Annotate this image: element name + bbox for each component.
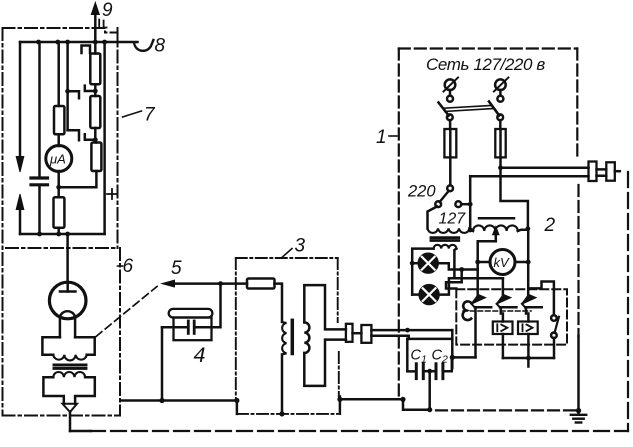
enclosure box 3 right edge upper [337,258,339,322]
wire kV meter right lead [515,261,529,264]
svg-text:kV: kV [494,255,511,270]
wire filament winding right down [454,249,456,279]
contact K3 tail [522,304,525,307]
stub below C divider node [451,357,454,368]
earth symbol bar 3 [576,421,581,423]
junction dot bottom bus x58.7 [56,232,61,237]
voltage selector contact 220 [447,185,453,191]
transformer T2 primary winding [282,322,287,355]
voltage selector contact tap220 [435,201,441,207]
signal lamp L1 [419,254,438,273]
junction dot lamp bus left [410,261,415,266]
resistor R2 of divider chain [90,96,100,128]
wire HV winding right [518,230,528,231]
earth symbol bar 1 [571,414,586,416]
contact K1 drop wire [476,262,479,297]
junction dot riser at HV winding [468,228,473,233]
filament winding [434,245,457,249]
door switch blade [555,317,559,333]
enclosure box 7/6 dash-dot left edge [2,28,4,416]
junction dot bus at capacitor 4 branch [159,398,164,403]
relay coil P1 box [493,322,513,335]
enclosure box 1 left edge [398,49,400,399]
svg-text:Сеть 127/220 в: Сеть 127/220 в [426,55,545,74]
wire microammeter branch top [57,42,60,106]
mains plug pin right [495,79,506,90]
wire lamp L2 left [412,293,419,296]
wire border riser through bus to bottom [339,397,342,414]
svg-text:4: 4 [194,343,206,367]
contact K3 arrowhead [522,295,536,304]
wire step stub from L1 node [446,270,462,289]
mains plug pin left link [449,90,452,96]
resistor R1 of divider chain [90,54,100,85]
contact K3 bar [525,306,542,309]
capacitor 4 right lead [196,284,221,328]
tap arrowhead [493,227,499,235]
wire lamp L2 right step [439,278,503,294]
mechanical link of contacts dashed [463,310,531,312]
remote cable connector half A [589,162,597,182]
svg-text:220: 220 [407,183,436,201]
resistor above microammeter [54,106,64,134]
svg-text:7: 7 [144,105,156,126]
wire C divider node to relay [452,356,475,359]
transformer core bar top [431,236,459,239]
earth symbol stem [577,411,580,415]
capacitor C1 plate left [415,364,418,379]
junction dot lamp L1 net [459,267,464,272]
contact K3 drop wire [527,262,530,297]
wire R1 to junction [94,84,97,91]
enclosure box 6 bottom edge [3,415,121,417]
wire R3 down to meter net [59,171,97,187]
main switch contact left [447,114,453,120]
voltage selector blade [440,191,449,202]
enclosure box 3 bottom edge [237,413,338,415]
mains plug pin left slash [444,78,459,92]
wire left branch with current arrows upper segment [19,42,22,157]
junction dot on riser at tap127 [468,202,473,207]
svg-text:3: 3 [295,236,306,257]
stub below relay rail dot [527,358,530,367]
main switch contact right [497,114,503,120]
tube cathode arc [60,311,75,316]
junction dot on lead 5 [218,281,223,286]
resistor below microammeter [54,197,65,228]
junction dot C divider node [450,355,455,360]
wire resistor to transformer primary [275,284,283,322]
bottom bus of box 7 [20,233,105,236]
transformer T2 secondary winding [304,322,309,353]
mains plug pin right slash [494,78,509,92]
signal lamp L2 cross [423,288,436,301]
outer dashed border bottom edge [90,430,628,432]
wire junction to resistor R2 [94,91,97,96]
arrowhead down on left branch [16,157,24,173]
filament transformer core bar top [54,364,86,367]
dashed leader from tube to arrow 5 [96,287,157,337]
arrowhead 9 [91,3,99,15]
remote cable connector stub [615,170,620,173]
wire T2 primary to bottom border [281,355,284,414]
outer dashed border right edge [627,172,629,431]
junction dot bottom bus x67.6 [65,232,70,237]
wire right branch x104.6 [103,42,106,234]
capacitor plate top [31,176,48,179]
capacitor plate bottom [31,183,48,186]
contact K1 tail [471,304,474,307]
wire fuse F2 to cable node [499,157,502,167]
cable wire lower to box 1 [371,336,408,339]
wire left branch lower segment [19,208,22,234]
wire capacitor branch upper [38,42,41,177]
wire T2 secondary top to connector [304,285,346,329]
junction dot bus at box edge [400,397,405,402]
resistor in box 3 [247,279,275,289]
enclosure box 3 right edge lower [338,352,340,397]
junction dot bus x104.6 [102,40,107,45]
microammeter circle [46,146,72,172]
wire bottom bus corner into box 1 [403,399,430,409]
signal lamp L2 [419,285,438,304]
earth symbol bar 2 [573,418,583,420]
wire start of bottom dashed run [70,430,91,433]
transformer T2 core [291,320,295,353]
wire between connector halves [353,332,362,335]
wire T2 secondary bottom loop to connector [304,340,346,386]
filament transformer primary winding [53,355,86,361]
capacitor C2 plate right [441,364,444,379]
enclosure box 3 left edge [235,258,237,400]
wire bus to tube anode [66,234,69,282]
wire fuse F1 to selector [449,157,452,185]
filament transformer secondary outline [43,377,94,404]
enclosure box 1 right edge lower [577,185,579,336]
kenotron tube envelope [49,282,86,319]
junction dot at earth [576,408,581,413]
door switch contact bottom [551,333,557,339]
junction dot bottom bus x39.5 [37,232,42,237]
junction dot kV left [475,260,480,265]
contact K2 lower lead [501,307,503,321]
enclosure box 6 right edge [119,248,121,415]
junction dot below fuse F2 [498,165,503,170]
junction dot under microammeter [56,185,61,190]
bus corner down to box 3 border [236,401,239,414]
svg-text:5: 5 [171,258,182,279]
capacitor unit 4 lid [169,309,213,318]
arrow 9 output lead [94,13,97,42]
svg-text:9: 9 [102,0,113,21]
contact K1 bar [475,306,492,309]
main switch blade left [439,103,449,116]
electrode hook symbol 8 [134,40,153,51]
junction dot T2 primary at border [279,411,284,416]
fuse F2 element [499,129,502,157]
wire R2 junction hook [85,134,96,139]
filament transformer primary outline [42,337,94,355]
relay coil P1 symbol [497,324,507,331]
wire filament winding left to lamps [412,249,433,295]
relay coil symbol epsilon [463,301,472,320]
wire resistor to microammeter [57,134,60,146]
wire top bus of divider box 7 [20,41,138,44]
wire lamp L1 left [412,262,418,265]
wire C divider bypass top [407,338,452,341]
wire cable upper to C node riser [451,330,454,357]
junction dot bus x38 [36,40,41,45]
wire R2 to junction [94,128,97,140]
junction dot on bottom border [427,407,432,412]
capacitor 4 plate right [193,321,196,333]
HV transformer core bar [479,217,514,220]
wire coil P1 to bottom rail [502,334,505,358]
wire tap127 to right riser [461,203,470,206]
wire junction to lower resistor [57,187,60,197]
wire winding right end [468,227,471,230]
door switch contact top [551,315,557,321]
output arrow symbol of HV unit [63,404,78,412]
mains plug pin left [445,79,456,90]
leader line for 6 [118,265,123,267]
mains plug pin right link [499,90,502,96]
junction dot bus x57.8 [55,40,60,45]
fuse F1 body [444,129,456,157]
plus mark near border [107,189,117,199]
relay unit dashed box [456,289,567,344]
wire capacitor branch lower [38,186,41,234]
main bottom bus left section [121,399,237,402]
svg-text:2: 2 [544,215,556,236]
junction dot cable upper at box edge [405,328,410,333]
contact K2 tail [497,304,500,307]
tube cathode leg left [59,317,62,338]
mains plug contact left [447,96,453,102]
wire kV right riser [527,230,530,262]
wire tap to kV meter left [478,241,496,262]
capacitor 4 left lead [162,326,187,329]
svg-text:6: 6 [123,256,134,277]
filament transformer core bar bottom [54,367,86,370]
transformer core bar bottom [431,239,459,242]
cable connector socket half [361,325,371,343]
contact K3 lower lead [526,307,528,321]
resistor R3 of divider chain [91,143,101,172]
wire tap hook lower [68,130,79,140]
wire bus to resistor R1 [94,42,97,54]
tick mark beside arrow 9 [99,20,106,28]
enclosure box 1 right edge upper [576,49,578,161]
remote cable wire lower [470,175,588,178]
wire R1 junction hook [85,86,96,91]
wire tap220 down to winding left [428,207,438,229]
contact K1 arrowhead [471,295,485,304]
relay coil P2 box [518,322,538,335]
cable connector plug half [346,324,353,342]
wire kV meter left lead [478,261,491,264]
junction dot HV winding right [526,226,531,231]
contact K2 drop wire [502,278,505,296]
junction dot relay rail [526,356,531,361]
wire C1 left lead [407,339,414,372]
kV meter circle [490,250,515,275]
wire microammeter to junction [57,171,60,187]
enclosure box 1 top edge [399,47,578,49]
wire C1 to C2 [425,370,434,373]
capacitor unit 4 body [174,318,212,341]
junction dot below R2 [93,137,98,142]
wire C divider tap to bottom [428,371,431,410]
capacitor C1 plate right [422,364,425,379]
signal lamp L1 cross [422,257,435,270]
capacitor 4 plate left [187,321,190,333]
wire coil P2 to bottom rail [527,334,530,358]
capacitor C2 plate left [435,364,438,379]
wire switch to fuse left [449,120,452,129]
junction dot bus x67.6 [65,40,70,45]
enclosure box 7 bottom edge [6,247,116,249]
junction dot below R1 [93,89,98,94]
wire autotransformer right riser [469,176,472,228]
earth wire down right side [577,336,580,411]
wire fuse node down to transformer right [501,168,528,228]
relay bottom rail [503,357,554,360]
wire capacitor 4 to bottom bus [161,327,164,400]
junction dot between C1 and C2 [427,369,432,374]
cable wire upper to box 1 [371,329,452,332]
autotransformer winding [428,228,470,233]
wire switch to fuse right [499,120,502,129]
wire C2 right lead [445,357,452,371]
wire tap hook upper [68,91,79,98]
contact K2 bar [500,306,517,309]
enclosure box 7 top edge [3,28,118,33]
relay coil P2 symbol [523,324,533,331]
junction dot bus x95.3 [93,40,98,45]
junction dot tap branch [65,89,70,94]
HV winding [473,225,518,231]
svg-text:μA: μA [49,151,66,166]
wire rail to door switch [553,338,556,358]
wire door switch upper lead [530,282,554,316]
fuse F1 element [449,129,452,157]
main switch gang link [445,105,493,111]
leader line for 1 [389,135,397,137]
tube anode lead [66,282,69,291]
wire junction to resistor R3 [95,140,96,143]
wire arrow to bottom dashed line [69,412,72,431]
main bottom bus right section [340,398,403,401]
wire HV winding left to riser [470,230,473,231]
tap arrow of autotransformer [495,234,498,241]
fuse F2 body [495,129,505,157]
arrowhead up on left branch [16,194,24,210]
arrowhead of control lead 5 [162,280,175,287]
svg-text:C1: C1 [411,348,427,366]
svg-text:C2: C2 [432,348,448,366]
filament transformer secondary winding [53,372,85,377]
enclosure box 1 bottom edge [436,409,576,411]
remote cable connector link wires [597,169,607,175]
wire tap branch x67.6 [66,42,69,130]
main switch blade right [489,102,499,116]
link bracket under bus [82,46,91,54]
voltage selector contact tap127 [455,201,461,207]
wire lower resistor to bottom bus [57,228,60,234]
enclosure box 3 top edge [236,257,338,259]
junction dot at bus corner [234,398,239,403]
remote cable connector half B [606,162,615,180]
leader line for 7 [123,111,142,117]
tube anode plate [60,290,75,293]
svg-text:1: 1 [376,127,387,148]
svg-text:127: 127 [439,211,467,228]
junction dot bus right section left end [337,397,342,402]
svg-text:8: 8 [155,36,166,57]
junction dot kV right [526,260,531,265]
leader line for 3 [282,249,293,258]
tube cathode leg right [74,317,77,338]
enclosure box 7 right edge [117,28,119,248]
mains plug contact right [497,96,503,102]
wire lamp L1 right step [438,263,478,269]
wire control lead 5 [173,282,247,285]
remote cable wire upper [501,167,589,170]
contact K1 lower lead [474,307,477,357]
contact K2 arrowhead [496,295,510,304]
